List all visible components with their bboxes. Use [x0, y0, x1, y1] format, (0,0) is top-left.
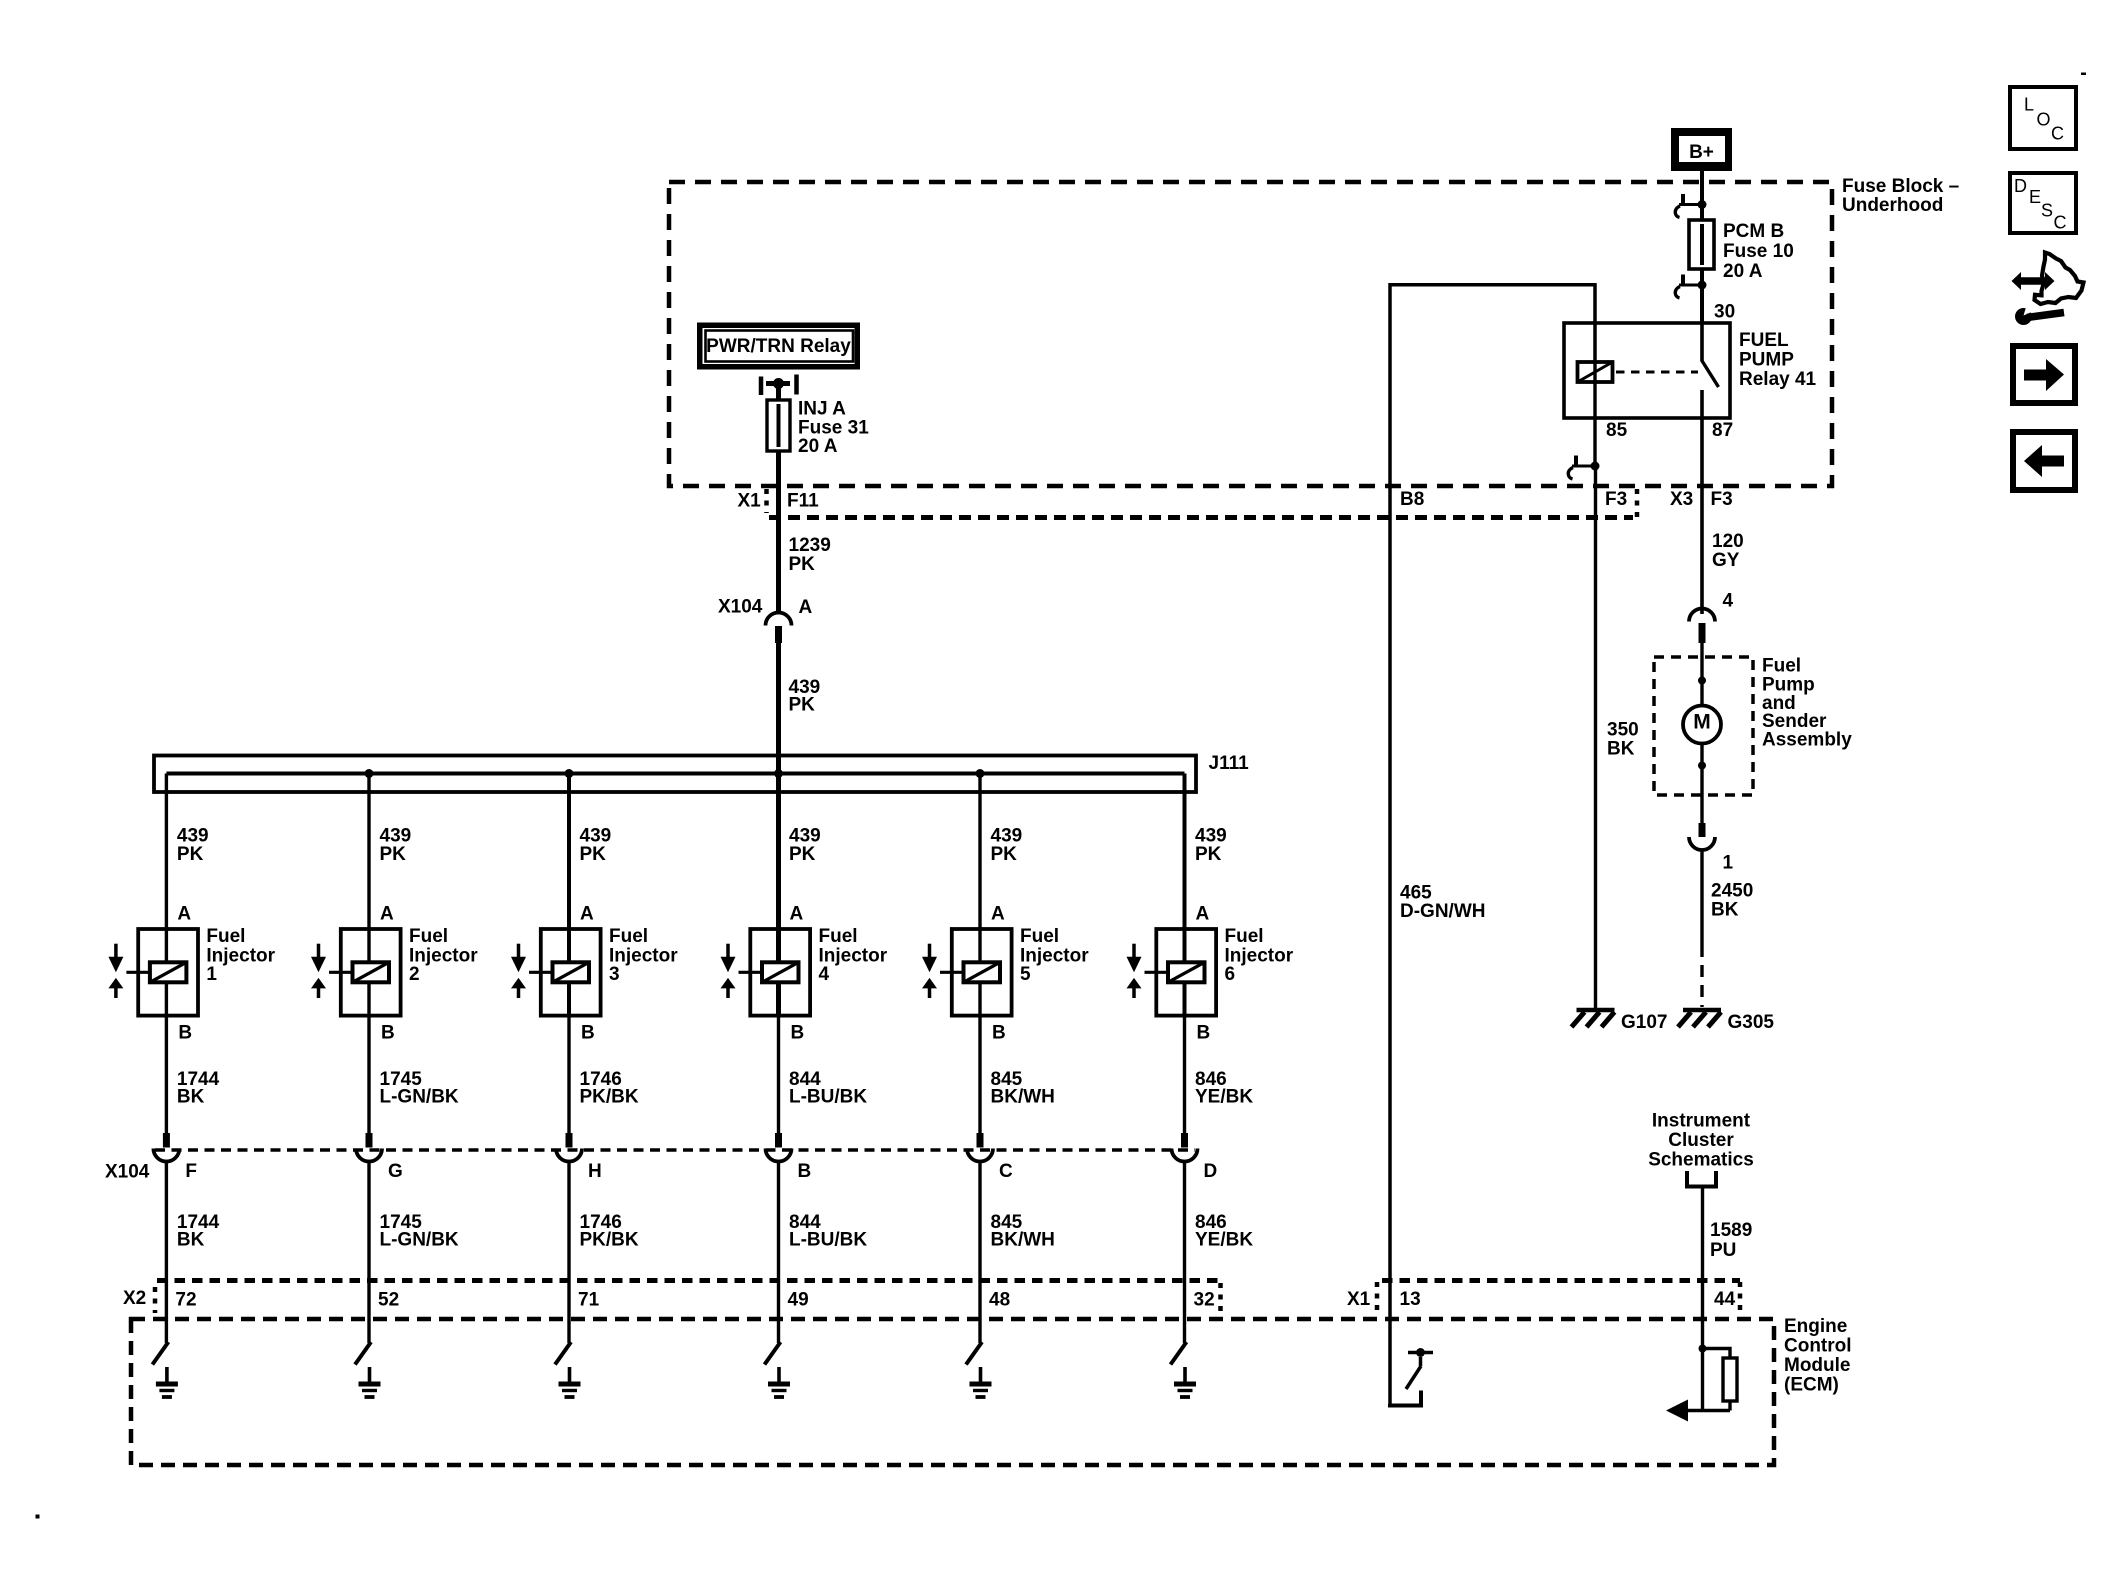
svg-text:Fuel: Fuel [409, 926, 448, 947]
svg-text:L-GN/BK: L-GN/BK [380, 1087, 459, 1108]
connector row dotted line X1 [769, 515, 1633, 520]
svg-text:X104: X104 [105, 1162, 150, 1183]
connector row X1 dotted line (right) [1382, 1278, 1740, 1283]
svg-text:(ECM): (ECM) [1784, 1375, 1839, 1396]
svg-text:Fuel: Fuel [819, 926, 858, 947]
wire 1589 PU [1701, 1187, 1704, 1349]
svg-text:PK: PK [789, 844, 816, 865]
wire B+ to PCM B fuse [1700, 171, 1704, 222]
svg-text:A: A [177, 904, 191, 925]
svg-text:YE/BK: YE/BK [1195, 1087, 1253, 1108]
svg-text:A: A [991, 904, 1005, 925]
svg-text:C: C [999, 1161, 1013, 1182]
svg-text:BK/WH: BK/WH [991, 1087, 1055, 1108]
ground ECM injector 3 [568, 1367, 572, 1382]
off-page connector bracket [1687, 1171, 1716, 1187]
svg-text:PU: PU [1710, 1240, 1736, 1261]
svg-text:E: E [2029, 187, 2041, 207]
battery B+ symbol [1671, 128, 1732, 171]
dashed wire to G305 [1700, 945, 1703, 1007]
wire 1744 BK upper [165, 1016, 168, 1133]
wire 846 YE/BK lower [1183, 1162, 1186, 1344]
connector X104 pin D [1172, 1149, 1198, 1162]
wire ECM-13 to relay coil (465/85 branch) [1390, 285, 1595, 1404]
wire pin 30 into relay [1700, 324, 1704, 361]
svg-text:F: F [185, 1161, 197, 1182]
fuel pump motor M [1683, 706, 1721, 744]
svg-text:PK: PK [580, 844, 607, 865]
svg-text:2: 2 [409, 964, 420, 985]
fuel pump and sender assembly dashed box [1654, 657, 1753, 795]
wire to INJ A fuse [776, 384, 781, 403]
svg-text:BK: BK [1711, 900, 1739, 921]
wire 844 L-BU/BK lower [777, 1162, 780, 1344]
fuel injector 1 [138, 929, 198, 1016]
svg-text:G305: G305 [1728, 1012, 1775, 1033]
svg-text:Fuel: Fuel [1020, 926, 1059, 947]
svg-text:Fuse 10: Fuse 10 [1723, 241, 1794, 262]
svg-text:PCM B: PCM B [1723, 221, 1784, 242]
svg-text:PK: PK [380, 844, 407, 865]
svg-text:C: C [2054, 213, 2067, 233]
svg-text:BK: BK [1607, 739, 1635, 760]
svg-text:B: B [798, 1161, 812, 1182]
svg-text:YE/BK: YE/BK [1195, 1230, 1253, 1251]
speck bottom-left [36, 1515, 40, 1519]
ECM injector 2 driver switch [355, 1342, 371, 1365]
svg-text:B: B [1197, 1023, 1211, 1044]
svg-text:6: 6 [1225, 964, 1236, 985]
svg-text:L-BU/BK: L-BU/BK [789, 1230, 867, 1251]
svg-text:Cluster: Cluster [1668, 1130, 1734, 1151]
connector X104 pin G [356, 1149, 382, 1162]
ground ECM injector 6 [1183, 1367, 1187, 1382]
svg-text:X104: X104 [718, 597, 763, 618]
ground ECM injector 4 [777, 1367, 781, 1382]
splice pack J111 [154, 756, 1196, 793]
ECM pull-up resistor [1703, 1349, 1731, 1359]
wire to comparator arrow [1701, 1349, 1704, 1411]
svg-text:INJ A: INJ A [798, 399, 846, 420]
svg-text:D: D [2014, 176, 2027, 196]
icon next arrow box [2013, 346, 2075, 403]
wire 1744 BK lower [165, 1162, 168, 1344]
svg-text:71: 71 [578, 1290, 600, 1311]
bracket X2 right end [1218, 1283, 1223, 1316]
ECM injector 1 driver switch [152, 1342, 168, 1365]
svg-text:L-BU/BK: L-BU/BK [789, 1087, 867, 1108]
wire 120 GY [1700, 488, 1704, 614]
svg-text:B8: B8 [1400, 489, 1424, 510]
svg-text:A: A [380, 904, 394, 925]
svg-text:44: 44 [1714, 1289, 1736, 1310]
junction [1698, 762, 1706, 770]
bracket X1 (ECM) [1375, 1282, 1380, 1316]
svg-text:52: 52 [378, 1290, 399, 1311]
svg-text:1: 1 [1723, 853, 1734, 874]
wire 1746 PK/BK lower [567, 1162, 570, 1344]
svg-text:X2: X2 [123, 1288, 146, 1309]
wire 439 PK to injector 4 [776, 774, 781, 930]
fuse PCM B Fuse 10 20A [1700, 222, 1704, 323]
svg-text:Control: Control [1784, 1336, 1852, 1357]
svg-text:32: 32 [1194, 1290, 1215, 1311]
connector X104 pin H [556, 1149, 582, 1162]
signal arrow [1666, 1400, 1688, 1422]
svg-text:120: 120 [1712, 531, 1744, 552]
ground G107 [1577, 1008, 1615, 1013]
ground ECM injector 1 [165, 1367, 169, 1382]
svg-text:5: 5 [1020, 964, 1031, 985]
svg-text:Assembly: Assembly [1762, 730, 1852, 751]
svg-text:Module: Module [1784, 1355, 1851, 1376]
svg-text:Fuse Block –: Fuse Block – [1842, 176, 1959, 197]
wire out of pump [1700, 744, 1703, 824]
fuel injector 6 [1156, 929, 1216, 1016]
wire 1745 L-GN/BK lower [367, 1162, 370, 1344]
svg-text:H: H [588, 1161, 602, 1182]
icon previous arrow box [2013, 432, 2075, 490]
svg-text:A: A [1196, 904, 1210, 925]
svg-text:PK: PK [789, 695, 816, 716]
label box PWR/TRN Relay [697, 323, 860, 370]
svg-text:O: O [2037, 110, 2051, 130]
clip terminal above PCM B fuse [1681, 194, 1685, 205]
wire 844 L-BU/BK upper [777, 1016, 780, 1133]
svg-text:PUMP: PUMP [1739, 350, 1794, 371]
svg-text:X1: X1 [1347, 1289, 1371, 1310]
connector X104 pin F [153, 1149, 179, 1162]
svg-text:GY: GY [1712, 550, 1740, 571]
wire 2450 BK [1700, 850, 1703, 945]
svg-text:PK/BK: PK/BK [580, 1230, 639, 1251]
wire 439 PK main feed [776, 643, 781, 774]
svg-text:B: B [791, 1023, 805, 1044]
wire 439 PK to injector 6 [1183, 774, 1187, 930]
svg-text:C: C [2051, 124, 2064, 144]
fuel injector 2 [341, 929, 401, 1016]
svg-text:PK: PK [789, 554, 816, 575]
fuel injector 4 [750, 929, 810, 1016]
svg-text:Fuel: Fuel [206, 926, 245, 947]
svg-text:J111: J111 [1209, 753, 1250, 774]
fuse INJ A Fuse 31 20A [777, 402, 781, 449]
ECM injector 5 driver switch [966, 1342, 982, 1365]
ground ECM injector 5 [979, 1367, 983, 1382]
relay coil [1578, 362, 1613, 382]
svg-text:B: B [992, 1023, 1006, 1044]
relay switch contact [1702, 360, 1719, 387]
svg-text:4: 4 [819, 964, 830, 985]
ground ECM injector 2 [368, 1367, 372, 1382]
junction [1698, 677, 1706, 685]
wire 845 BK/WH lower [978, 1162, 981, 1344]
svg-text:F11: F11 [787, 491, 819, 512]
svg-text:13: 13 [1400, 1289, 1421, 1310]
svg-text:D-GN/WH: D-GN/WH [1400, 901, 1485, 922]
svg-text:48: 48 [989, 1290, 1010, 1311]
speck top-right [2081, 73, 2086, 76]
bracket pin 44 [1738, 1282, 1743, 1316]
svg-text:1589: 1589 [1710, 1220, 1752, 1241]
wire 350 BK to G107 [1594, 466, 1597, 1008]
svg-text:F3: F3 [1711, 489, 1733, 510]
svg-text:4: 4 [1723, 591, 1734, 612]
svg-text:87: 87 [1712, 420, 1733, 441]
svg-text:Fuel: Fuel [1762, 656, 1801, 677]
svg-text:X1: X1 [738, 491, 762, 512]
svg-text:F3: F3 [1605, 489, 1627, 510]
wire 1745 L-GN/BK upper [367, 1016, 370, 1133]
svg-text:B: B [581, 1023, 595, 1044]
wire 1239 PK [776, 451, 781, 615]
svg-text:2450: 2450 [1711, 881, 1753, 902]
relay output bracket [759, 377, 764, 396]
svg-text:S: S [2041, 201, 2053, 221]
svg-text:49: 49 [788, 1290, 809, 1311]
wire 1746 PK/BK upper [567, 1016, 570, 1133]
svg-text:Underhood: Underhood [1842, 195, 1943, 216]
svg-text:PK: PK [991, 844, 1018, 865]
icon LOC box [2010, 87, 2076, 149]
connector pin 1 [1699, 823, 1706, 837]
ground G305 [1683, 1008, 1721, 1013]
svg-text:B+: B+ [1689, 142, 1714, 163]
connector pin 4 [1689, 609, 1715, 622]
svg-text:G: G [388, 1161, 403, 1182]
relay box FUEL PUMP Relay 41 [1564, 323, 1730, 418]
svg-text:B: B [381, 1023, 395, 1044]
icon DESC box [2010, 173, 2076, 233]
svg-text:1: 1 [206, 964, 217, 985]
connector X104 pin C [967, 1149, 993, 1162]
junction dots on J111 [365, 769, 374, 778]
svg-text:Schematics: Schematics [1648, 1150, 1754, 1171]
svg-text:FUEL: FUEL [1739, 330, 1789, 351]
bracket X1 [764, 489, 769, 513]
svg-text:Engine: Engine [1784, 1316, 1847, 1337]
svg-text:20 A: 20 A [1723, 261, 1763, 282]
svg-text:A: A [580, 904, 594, 925]
wire 439 PK to injector 3 [567, 774, 571, 930]
ECM fuel pump relay driver switch [1390, 1391, 1421, 1406]
wire 439 PK to injector 5 [978, 774, 981, 930]
svg-text:A: A [790, 904, 804, 925]
svg-text:350: 350 [1607, 720, 1639, 741]
ECM injector 6 driver switch [1171, 1342, 1187, 1365]
ECM injector 3 driver switch [555, 1342, 571, 1365]
svg-text:72: 72 [175, 1290, 196, 1311]
engine control module dashed box [131, 1319, 1774, 1465]
svg-text:Instrument: Instrument [1652, 1111, 1751, 1132]
ECM injector 4 driver switch [765, 1342, 781, 1365]
svg-text:20 A: 20 A [798, 436, 838, 457]
connector row X104 dashed line [155, 1148, 1195, 1151]
svg-text:PK: PK [1195, 844, 1222, 865]
connector row X2 dotted line [157, 1278, 1221, 1283]
svg-text:Fuel: Fuel [1225, 926, 1264, 947]
svg-text:B: B [178, 1023, 192, 1044]
svg-text:L: L [2024, 95, 2034, 115]
svg-text:D: D [1204, 1161, 1218, 1182]
svg-text:BK: BK [177, 1087, 205, 1108]
connector X104 pin B [766, 1149, 792, 1162]
icon wrench and arrows [2012, 272, 2055, 290]
wire 846 YE/BK upper [1183, 1016, 1186, 1133]
wire 439 PK to injector 1 [165, 774, 168, 930]
fuel injector 3 [541, 929, 601, 1016]
bracket X2 [153, 1287, 158, 1313]
relay coil-switch dashed link [1616, 371, 1698, 374]
svg-text:L-GN/BK: L-GN/BK [380, 1230, 459, 1251]
svg-text:1239: 1239 [789, 535, 831, 556]
svg-text:X3: X3 [1670, 489, 1693, 510]
wire into pump [1700, 643, 1703, 706]
svg-text:PK/BK: PK/BK [580, 1087, 639, 1108]
wire 439 PK to injector 2 [367, 774, 370, 930]
svg-text:BK/WH: BK/WH [991, 1230, 1055, 1251]
fuse block underhood dashed box [669, 182, 1832, 486]
svg-text:G107: G107 [1621, 1012, 1667, 1033]
svg-text:Fuel: Fuel [609, 926, 648, 947]
clip terminal below PCM B fuse [1681, 275, 1685, 286]
clip terminal on 85 wire [1574, 456, 1578, 467]
svg-text:Relay 41: Relay 41 [1739, 369, 1817, 390]
junction [1699, 1345, 1707, 1353]
svg-text:PWR/TRN Relay: PWR/TRN Relay [706, 336, 851, 357]
svg-text:A: A [799, 597, 813, 618]
svg-text:PK: PK [177, 844, 204, 865]
svg-text:85: 85 [1606, 420, 1628, 441]
svg-text:30: 30 [1714, 302, 1735, 323]
wire 845 BK/WH upper [978, 1016, 981, 1133]
bracket F3 [1635, 489, 1640, 521]
svg-text:M: M [1693, 711, 1711, 734]
svg-text:BK: BK [177, 1230, 205, 1251]
svg-text:3: 3 [609, 964, 620, 985]
fuel injector 5 [952, 929, 1012, 1016]
